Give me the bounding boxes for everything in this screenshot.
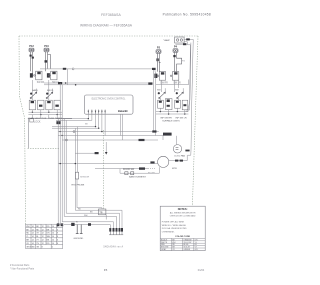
infinite switch left-rear (box): [47, 71, 57, 80]
electronic oven control EOC box: [84, 95, 133, 114]
svg-text:YL: YL: [26, 236, 28, 238]
svg-text:OVEN DOOR CLOSED AND: OVEN DOOR CLOSED AND: [170, 215, 196, 218]
left cluster tie bar 2: [28, 114, 62, 116]
power cord junction connector: [71, 223, 74, 226]
chassis ground lugs: [57, 223, 60, 226]
surface unit receptacle P4 symbol: [173, 49, 182, 72]
svg-text:Bake/Br: Bake/Br: [118, 109, 128, 113]
svg-text:F5: F5: [104, 268, 108, 272]
cooling fan brushes: [176, 148, 179, 150]
right cluster lever switch 2: [176, 92, 184, 99]
svg-text:BL: BL: [36, 236, 38, 238]
EOC drop wire 3: [95, 114, 97, 127]
svg-text:14: 14: [32, 243, 34, 245]
svg-text:GROUND: GROUND: [26, 247, 35, 249]
right cluster tie bar 1: [156, 111, 188, 113]
svg-text:6: 6: [57, 226, 58, 228]
svg-text:WH: WH: [84, 215, 88, 217]
svg-text:14: 14: [32, 226, 34, 228]
cavity drop arrow: [105, 152, 108, 155]
surface unit receptacle P2 symbol: [156, 50, 161, 72]
svg-text:COOL FAN: COOL FAN: [174, 154, 185, 157]
selector contact box 3: [46, 100, 52, 110]
junction dot B1: [65, 82, 67, 84]
EOC terminal pins: [88, 110, 105, 114]
svg-text:FEF365ASA: FEF365ASA: [101, 13, 121, 17]
oven cavity dashed left edge: [103, 130, 105, 210]
svg-text:8: 8: [57, 233, 58, 235]
svg-text:GROUND: GROUND: [74, 238, 84, 240]
sensor stub connector: [95, 152, 99, 154]
splice circle on bus wire A: [72, 68, 74, 70]
stub wire from bus A down: [67, 69, 69, 85]
right side riser wire L2: [186, 47, 191, 110]
wire bundle vertical 6: [75, 128, 122, 228]
svg-text:6: 6: [57, 240, 58, 242]
harness wire row 5: [58, 131, 159, 133]
svg-text:6: 6: [57, 229, 58, 231]
svg-text:INF SW LR: INF SW LR: [175, 117, 186, 119]
bake element wire: [120, 172, 159, 174]
maintop solid outline (L shape): [28, 118, 72, 148]
right cluster contact box 3: [175, 100, 181, 108]
svg-text:LOCK: LOCK: [34, 121, 41, 124]
right cluster junction dots: [160, 111, 186, 115]
svg-text:Publication No. 5995410458: Publication No. 5995410458: [163, 12, 211, 16]
svg-text:P2: P2: [157, 46, 161, 50]
svg-text:P4: P4: [182, 61, 185, 63]
svg-text:12: 12: [42, 240, 44, 242]
lamp circuit arrow connector: [186, 38, 190, 40]
svg-text:01/04: 01/04: [198, 268, 205, 272]
left cluster vertical links: [32, 80, 57, 118]
harness junction dots: [60, 118, 103, 136]
connector mark on lamp feed wire: [183, 43, 186, 45]
motor feed vertical pair: [154, 70, 156, 136]
selector contact box 1: [29, 100, 35, 110]
oven temperature sensor (fuse box): [75, 172, 78, 179]
infinite switch right-rear (box): [170, 72, 179, 81]
sensor wire continues: [77, 179, 102, 209]
connector mark on latch wire: [139, 167, 145, 169]
oven selector lever switch (left cluster, broil): [46, 92, 53, 99]
svg-text:12: 12: [42, 226, 44, 228]
svg-text:SENSOR: SENSOR: [80, 176, 90, 178]
harness wire row 6: [58, 136, 163, 141]
motor feed horizontal links: [175, 136, 177, 145]
door switch junction dots: [60, 163, 77, 164]
infinite switch left-front (box): [30, 71, 42, 80]
wire bundle vertical 3: [62, 85, 113, 229]
svg-text:BK: BK: [85, 123, 88, 125]
svg-text:GREEN: GREEN: [183, 249, 190, 251]
color code table grid: [160, 238, 205, 250]
svg-text:8: 8: [57, 243, 58, 245]
svg-text:SURFACE UNITS: SURFACE UNITS: [162, 120, 180, 123]
svg-text:NOTES:: NOTES:: [178, 207, 188, 211]
oven lamp and switch box: [175, 37, 184, 43]
svg-text:SW: SW: [175, 90, 179, 92]
right cluster contact box 2: [165, 99, 172, 110]
end connector on bus wire B: [148, 82, 152, 84]
wire chart cell text: [26, 226, 58, 249]
junction blob on bus wire A right: [152, 68, 156, 70]
right side riser wire L1: [188, 41, 194, 155]
junction dot B2: [75, 84, 77, 86]
motor feed connector blob: [163, 133, 172, 136]
connector mark on bus wire A: [63, 68, 66, 70]
svg-text:DOOR SW: DOOR SW: [123, 169, 135, 171]
selector contact box 4: [54, 100, 60, 110]
svg-text:10: 10: [52, 243, 54, 245]
svg-text:BROIL: BROIL: [47, 90, 54, 92]
right cluster contact box 1: [158, 100, 164, 108]
svg-text:6: 6: [52, 247, 53, 249]
svg-text:14: 14: [32, 229, 34, 231]
splice circle on harness row 8: [65, 139, 67, 141]
svg-text:RTD PROBE: RTD PROBE: [72, 184, 85, 186]
main power connector pins: [109, 228, 123, 232]
cavity drop wire with arrow: [105, 142, 107, 152]
svg-text:ELECTRONIC OVEN CONTROL: ELECTRONIC OVEN CONTROL: [92, 98, 127, 100]
right cluster vertical links: [158, 53, 185, 114]
selector contact box 2: [38, 100, 44, 110]
EOC pin arrowheads: [88, 111, 106, 113]
svg-text:COLOR CODE: COLOR CODE: [175, 236, 190, 238]
wire bundle vertical 1: [57, 119, 59, 224]
connector marks on motor wire: [175, 160, 178, 162]
wire chart table (bottom left): [26, 224, 63, 248]
svg-text:8: 8: [42, 247, 43, 249]
splice circle on harness: [73, 131, 75, 133]
power cord second connector: [88, 223, 91, 226]
wire bundle vertical 5: [66, 120, 119, 228]
door latch wire dashed tail: [148, 168, 156, 170]
connector mark before convection motor: [150, 161, 154, 163]
svg-text:* Non-Functional Parts: * Non-Functional Parts: [10, 267, 35, 270]
cooling fan motor (small circle): [173, 145, 181, 153]
svg-text:P4: P4: [174, 45, 178, 49]
convection motor right wire: [169, 155, 187, 160]
cavity box tail wire: [105, 215, 107, 220]
main connector legs: [109, 232, 123, 235]
harness wire row 1: [56, 118, 88, 120]
svg-text:54DIA54A rev A: 54DIA54A rev A: [103, 245, 123, 248]
svg-text:TB: TB: [99, 211, 102, 214]
bake element risers: [120, 167, 159, 173]
harness connector mark: [56, 121, 60, 124]
svg-text:OVEN SELECTOR: OVEN SELECTOR: [28, 118, 47, 120]
svg-text:GN: GN: [36, 247, 39, 249]
svg-text:MTR: MTR: [172, 168, 177, 170]
oven door switch wire: [58, 163, 157, 165]
right cluster contact box 4: [182, 100, 188, 110]
connector mark on bus wire B: [58, 82, 62, 84]
EOC drop wire 2: [91, 114, 93, 121]
svg-text:14: 14: [32, 236, 34, 238]
left cluster junction dots: [32, 112, 58, 116]
svg-text:10: 10: [52, 229, 54, 231]
svg-text:BAKE ELEMENT: BAKE ELEMENT: [129, 176, 146, 179]
wire from receptacle P4 to oven lamp feed: [176, 43, 187, 45]
harness wire row 7: [62, 139, 158, 141]
lamp circuit wire to right side: [184, 39, 193, 47]
svg-text:14: 14: [32, 240, 34, 242]
chassis dashed outline: right edge: [192, 36, 198, 206]
svg-text:8: 8: [57, 236, 58, 238]
infinite switch right-front (box): [154, 72, 165, 81]
harness wire row 4: [52, 127, 99, 129]
right cluster tie bar 2: [156, 113, 188, 115]
right cluster collector wire: [156, 80, 189, 85]
bus wire A (upper horizontal): [40, 69, 155, 72]
EOC drop wire 6: [104, 114, 106, 136]
chassis dashed outline: top edge: [19, 35, 198, 37]
svg-text:IS 18 GA. UNLESS NOTED: IS 18 GA. UNLESS NOTED: [162, 227, 187, 230]
door latch wire with label: [95, 168, 148, 170]
wire bundle vertical 2: [59, 83, 61, 224]
surface unit receptacle P10 symbol: [44, 48, 51, 71]
bus wire B2: [44, 84, 152, 86]
wire bundle vertical 7: [76, 127, 78, 173]
svg-text:WIRING DIAGRAM — FEF365ASA: WIRING DIAGRAM — FEF365ASA: [80, 24, 133, 28]
svg-text:P12: P12: [29, 44, 34, 48]
svg-text:14: 14: [32, 233, 34, 235]
harness wire row 8: [139, 139, 145, 141]
cavity bottom terminal box: [99, 209, 106, 215]
convection motor (large circle): [158, 156, 169, 167]
color code cell text: [161, 238, 198, 251]
EOC drop wire 5: [101, 114, 103, 132]
svg-text:12: 12: [42, 229, 44, 231]
left cluster tie bar 1: [28, 111, 62, 113]
sensor stub wire: [75, 152, 96, 154]
wire bundle vertical 4: [64, 119, 116, 229]
console bottom dashed line: [28, 148, 61, 150]
svg-text:10: 10: [52, 240, 54, 242]
svg-text:10: 10: [52, 226, 54, 228]
EOC drop wire 4: [98, 114, 100, 129]
svg-text:BAKE: BAKE: [32, 89, 38, 92]
svg-text:*LAMP: *LAMP: [163, 39, 170, 42]
EOC drop wire 1: [87, 114, 89, 119]
svg-text:OTHERWISE.: OTHERWISE.: [162, 232, 175, 234]
EOC relay drop wires to motor net: [120, 114, 122, 140]
bus wire B1 (lower horizontal pair): [44, 82, 149, 84]
harness wire row 3: [52, 126, 96, 128]
notes box (bottom right): [160, 206, 205, 250]
harness wire row 2: [56, 119, 92, 121]
svg-text:GRAY: GRAY: [161, 248, 167, 251]
svg-text:12: 12: [42, 233, 44, 235]
svg-text:10: 10: [52, 236, 54, 238]
svg-text:12: 12: [42, 236, 44, 238]
svg-text:ALL WIRING SHOWN WITH: ALL WIRING SHOWN WITH: [170, 212, 196, 215]
right side riser wire N: [186, 43, 191, 112]
svg-text:WIRE NO. / WIRE GAUGE: WIRE NO. / WIRE GAUGE: [162, 224, 187, 227]
connector mark on riser at oven cluster: [185, 150, 189, 152]
surface unit receptacle P12 symbol: [29, 48, 34, 73]
svg-text:12: 12: [42, 243, 44, 245]
svg-text:INF SW RR: INF SW RR: [160, 117, 172, 119]
oven selector lever switch (left cluster, bake): [30, 92, 37, 99]
door lock switch box: [30, 119, 34, 122]
svg-text:10: 10: [52, 233, 54, 235]
chassis dashed outline: left edge: [19, 36, 26, 225]
svg-text:SW: SW: [157, 90, 161, 92]
right cluster lever switch 1: [158, 92, 166, 99]
bake element terminals: [125, 172, 128, 175]
svg-text:POWER OFF. ALL WIRE: POWER OFF. ALL WIRE: [162, 220, 185, 223]
ground strap legs (terminal block): [76, 225, 83, 234]
svg-text:SW RF: SW RF: [37, 82, 45, 84]
svg-text:P10: P10: [44, 44, 49, 48]
power cord wire: [64, 225, 110, 229]
